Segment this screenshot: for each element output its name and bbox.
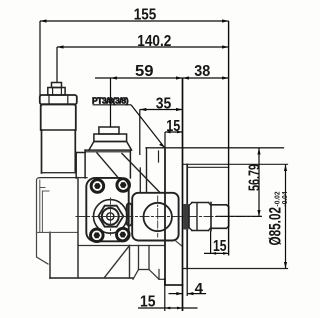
chamfer under bearing plate — [176, 241, 183, 246]
port boss circle behind hex — [94, 200, 128, 234]
port plug skirt — [89, 142, 132, 151]
pilot spigot — [186, 164, 188, 268]
shaft step — [210, 203, 212, 231]
dim 15 top — [165, 131, 183, 133]
svg-text:155: 155 — [134, 7, 157, 24]
relief valve cap — [40, 95, 77, 104]
spigot shadow band — [183, 204, 188, 230]
svg-text:15: 15 — [140, 294, 156, 311]
dim 38 — [183, 76, 190, 79]
label dia 85.02 vertical — [267, 191, 290, 245]
svg-text:-0.04: -0.04 — [282, 191, 289, 206]
svg-text:56.79: 56.79 — [247, 164, 264, 191]
svg-text:4: 4 — [195, 280, 204, 297]
rear cover top edge — [39, 177, 87, 179]
shaft section A — [192, 202, 209, 204]
dim 56.79 — [258, 148, 260, 217]
center hex fitting — [98, 206, 123, 227]
port plug top — [99, 127, 119, 134]
body rear vertical behind plate — [77, 178, 79, 278]
relief valve body — [41, 104, 76, 130]
relief valve adjusting screw stem — [52, 83, 62, 88]
main centerline — [76, 216, 262, 218]
svg-text:-0.02: -0.02 — [275, 191, 282, 206]
socket screw top-right — [117, 179, 130, 192]
body edge above bearing plate — [139, 168, 141, 193]
rear cover inner lines — [39, 180, 41, 233]
body edge line under plates — [78, 245, 165, 247]
rear cover left edge — [37, 178, 49, 264]
dimension graphics — [40, 19, 287, 311]
top port boss — [84, 150, 86, 178]
dim 15 shaft — [204, 252, 229, 254]
flange top edge + extension — [146, 147, 284, 149]
flange front face + 59/38 divider + bottom dim extensions (one long line) — [182, 78, 184, 311]
valve base bottom edge — [41, 172, 75, 174]
svg-text:59: 59 — [135, 63, 154, 80]
svg-text:Ø85.02: Ø85.02 — [267, 207, 285, 246]
port plug mid — [94, 134, 127, 142]
step vertical under bearing plate — [129, 246, 131, 279]
mounting flange rear face — [164, 148, 166, 285]
socket screw bottom-left — [91, 229, 104, 242]
dim 140.2 — [57, 46, 229, 48]
leader PT3/8 — [93, 104, 132, 106]
bottom chamfer diagonal — [104, 246, 130, 279]
dim 15 bottom — [138, 307, 198, 309]
dimension texts — [92, 7, 289, 311]
body top line right of valve — [76, 152, 85, 154]
body chamfer diagonal to flange — [122, 154, 160, 193]
socket screw bottom-right — [117, 228, 130, 241]
lower body block — [49, 232, 51, 278]
tab between plates — [127, 204, 132, 226]
dim 59 — [95, 77, 229, 79]
shaft end extension — [228, 21, 230, 256]
boss chamfer diagonal — [97, 153, 117, 177]
flange bottom edge — [165, 284, 183, 286]
dim 4 — [169, 293, 183, 295]
bearing plate — [132, 193, 178, 241]
svg-text:38: 38 — [194, 63, 210, 80]
svg-text:140.2: 140.2 — [137, 33, 171, 50]
body bottom edge left — [50, 277, 133, 279]
bottom notch — [138, 246, 140, 270]
port flange plate with screws — [86, 178, 128, 241]
relief valve lower sleeve — [41, 130, 43, 173]
socket screw top-left — [91, 180, 104, 193]
shaft section B — [211, 204, 227, 206]
svg-text:PT3/8(3/8): PT3/8(3/8) — [92, 96, 129, 106]
dim 85.02 — [285, 165, 287, 269]
bore circle — [144, 203, 172, 231]
svg-text:15: 15 — [166, 118, 180, 135]
dim 155 — [40, 20, 229, 22]
dim 35 — [140, 109, 183, 111]
svg-text:15: 15 — [213, 238, 227, 255]
step near flange — [146, 148, 148, 193]
relief valve locknut — [48, 88, 65, 96]
svg-text:35: 35 — [156, 96, 172, 113]
